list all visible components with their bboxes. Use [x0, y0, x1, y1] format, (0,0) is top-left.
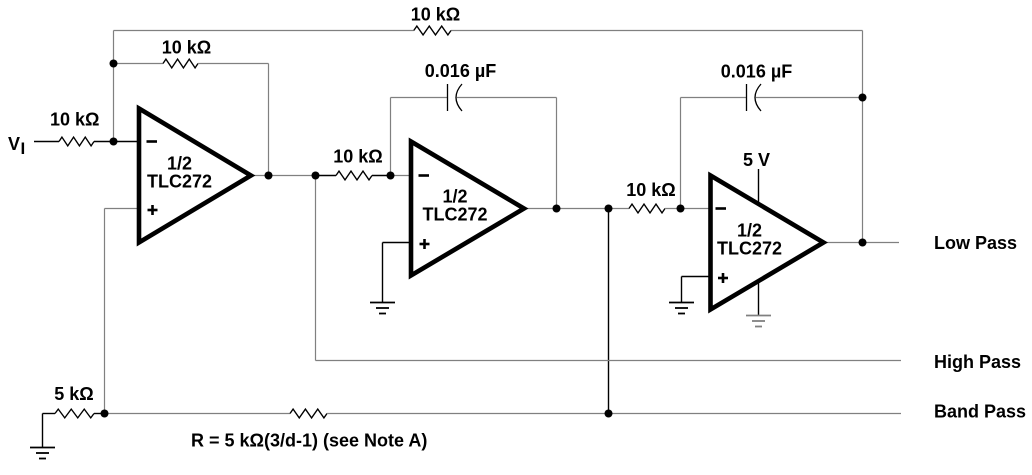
svg-text:5 V: 5 V — [743, 150, 770, 170]
svg-text:Band Pass: Band Pass — [934, 402, 1026, 422]
svg-text:TLC272: TLC272 — [147, 172, 212, 192]
svg-text:1/2: 1/2 — [737, 221, 762, 241]
svg-text:10 kΩ: 10 kΩ — [411, 5, 460, 25]
svg-text:10 kΩ: 10 kΩ — [626, 180, 675, 200]
svg-text:I: I — [21, 139, 26, 158]
svg-text:TLC272: TLC272 — [717, 239, 782, 259]
svg-text:1/2: 1/2 — [167, 154, 192, 174]
svg-text:10 kΩ: 10 kΩ — [162, 38, 211, 58]
svg-text:TLC272: TLC272 — [422, 205, 487, 225]
svg-text:0.016 µF: 0.016 µF — [721, 62, 792, 82]
svg-text:R = 5 kΩ(3/d-1) (see Note A): R = 5 kΩ(3/d-1) (see Note A) — [191, 431, 427, 451]
svg-text:10 kΩ: 10 kΩ — [333, 147, 382, 167]
svg-text:V: V — [8, 134, 20, 154]
svg-text:5 kΩ: 5 kΩ — [54, 384, 93, 404]
svg-text:1/2: 1/2 — [442, 187, 467, 207]
svg-text:High Pass: High Pass — [934, 352, 1021, 372]
svg-text:Low Pass: Low Pass — [934, 233, 1017, 253]
svg-text:10 kΩ: 10 kΩ — [50, 110, 99, 130]
svg-text:0.016 µF: 0.016 µF — [425, 61, 496, 81]
